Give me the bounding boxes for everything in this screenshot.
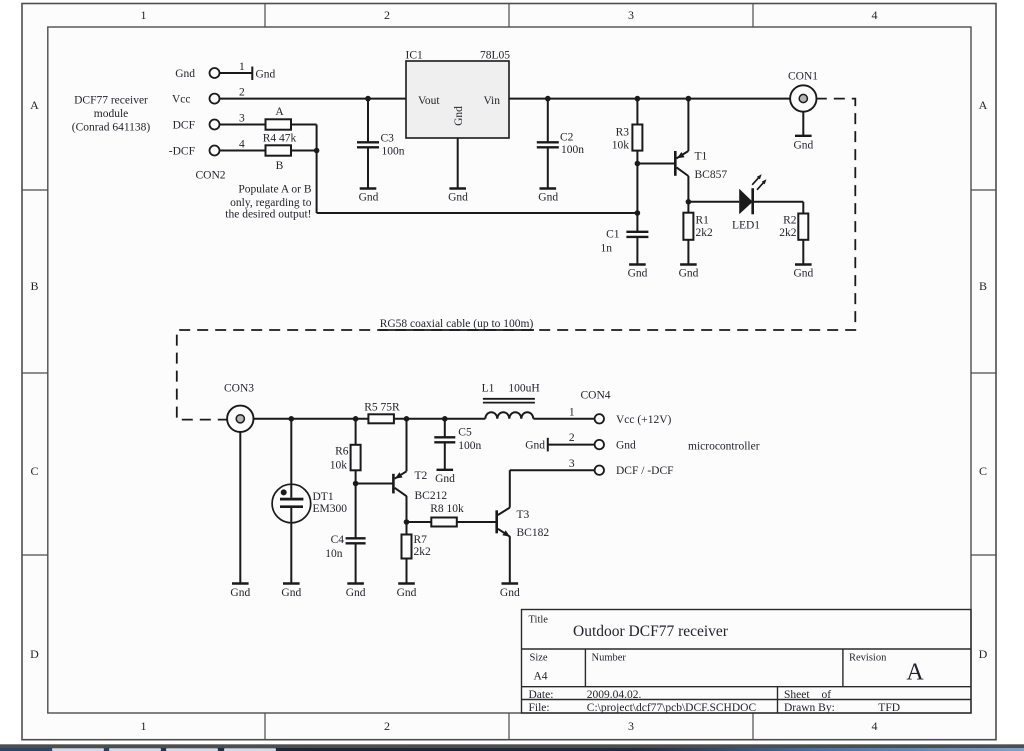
wire IC1 Vin to CON1 [509, 98, 790, 100]
resistor R5 [368, 414, 394, 423]
connector CON3 [227, 406, 253, 432]
node T1c/R1 [686, 199, 692, 205]
svg-text:Gnd: Gnd [281, 587, 301, 599]
svg-text:LED1: LED1 [732, 220, 760, 232]
wire C3 to ground [367, 147, 369, 189]
resistor R1 [683, 213, 693, 240]
svg-text:EM300: EM300 [313, 503, 348, 515]
svg-text:B: B [979, 279, 987, 293]
wire CON3 to ground [239, 432, 241, 584]
svg-text:1: 1 [141, 8, 147, 22]
wire C2 to ground [547, 147, 549, 189]
svg-text:CON1: CON1 [788, 71, 818, 83]
wire node to R8 [407, 521, 432, 523]
wire C5 branch [444, 419, 446, 437]
svg-text:3: 3 [239, 113, 245, 125]
connector CON4 pins [595, 414, 604, 475]
svg-text:of: of [822, 689, 832, 701]
wire T2 collector to R7/R8 node [406, 496, 408, 535]
title block frame [522, 610, 972, 714]
wire R1 to ground [687, 240, 689, 265]
svg-text:L1: L1 [482, 383, 495, 395]
svg-text:Gnd: Gnd [793, 140, 813, 152]
svg-text:Vcc (+12V): Vcc (+12V) [616, 414, 672, 426]
svg-text:A: A [275, 106, 284, 118]
svg-text:(Conrad 641138): (Conrad 641138) [72, 122, 151, 134]
svg-text:Size: Size [530, 652, 548, 663]
svg-text:C5: C5 [458, 427, 472, 439]
junction dots bottom [289, 416, 448, 525]
node T2c/R7/R8 [404, 519, 410, 525]
wire R2 to ground [802, 240, 804, 265]
svg-text:Outdoor DCF77 receiver: Outdoor DCF77 receiver [573, 623, 729, 640]
wire node to C1 rail [317, 212, 638, 214]
svg-text:R5 75R: R5 75R [364, 402, 400, 414]
svg-text:Gnd: Gnd [628, 268, 648, 280]
svg-text:R8 10k: R8 10k [430, 503, 464, 515]
wire T1 collector to LED [688, 201, 739, 203]
svg-text:R6: R6 [335, 446, 349, 458]
svg-text:T3: T3 [517, 509, 530, 521]
transistor T1 BC857 [675, 151, 688, 176]
svg-text:A4: A4 [534, 671, 548, 683]
resistor R8 [431, 518, 457, 527]
wire R6 bottom to C4 [355, 470, 357, 538]
svg-text:only, regarding to: only, regarding to [230, 197, 312, 209]
svg-text:3: 3 [628, 719, 634, 733]
wire CON2 pin4 to resistor B [220, 150, 266, 152]
svg-text:R1: R1 [696, 214, 710, 226]
LED1 symbol [739, 189, 753, 215]
svg-text:2: 2 [569, 432, 575, 444]
dashed coax outline [177, 99, 856, 420]
node rail/R3 [635, 96, 641, 102]
svg-text:Vcc: Vcc [172, 94, 191, 106]
svg-text:-DCF: -DCF [169, 146, 195, 158]
svg-text:Vin: Vin [483, 95, 500, 107]
wire CON1 to ground [802, 112, 804, 137]
svg-text:Gnd: Gnd [448, 192, 468, 204]
resistor R7 [402, 535, 412, 559]
capacitor C5 [434, 437, 455, 442]
svg-text:Drawn By:: Drawn By: [784, 702, 835, 714]
svg-text:10n: 10n [325, 548, 343, 560]
wire Gnd port to CON4 pin2 [548, 444, 595, 446]
svg-text:2k2: 2k2 [779, 227, 797, 239]
row ticks right [971, 189, 996, 191]
connector CON2 pins [210, 68, 220, 78]
svg-text:DCF / -DCF: DCF / -DCF [616, 465, 674, 477]
svg-text:Gnd: Gnd [616, 440, 636, 452]
svg-text:IC1: IC1 [406, 50, 424, 62]
wire C2 branch [547, 99, 549, 142]
svg-text:2009.04.02.: 2009.04.02. [587, 689, 642, 701]
resistor R4-B [266, 145, 292, 155]
svg-text:2k2: 2k2 [696, 227, 714, 239]
wire C5 to ground [444, 443, 446, 470]
svg-text:A: A [30, 98, 39, 112]
transistor T2 BC212 [393, 471, 406, 496]
svg-text:File:: File: [529, 702, 550, 714]
solid underline under RG58 text [379, 329, 534, 331]
wire T2 emitter vertical [406, 419, 408, 472]
svg-text:Title: Title [529, 615, 549, 626]
node C1 [635, 210, 641, 216]
svg-text:A: A [906, 660, 924, 686]
resistor R6 [351, 445, 361, 471]
wire C3 branch [367, 99, 369, 142]
svg-text:BC182: BC182 [517, 527, 550, 539]
svg-text:C:\project\dcf77\pcb\DCF.SCHDO: C:\project\dcf77\pcb\DCF.SCHDOC [587, 702, 757, 714]
svg-text:4: 4 [239, 139, 245, 151]
svg-text:Gnd: Gnd [679, 268, 699, 280]
svg-text:BC212: BC212 [415, 490, 448, 502]
junction dots top [314, 96, 691, 216]
svg-text:2: 2 [384, 8, 390, 22]
Gnd port bar pin2 [547, 438, 549, 452]
svg-text:B: B [30, 279, 38, 293]
wire R8 to T3 base [457, 521, 496, 523]
diode DT1 EM300 [272, 484, 311, 523]
transistor T3 BC182 [497, 508, 510, 537]
wire R6 top [355, 419, 357, 445]
wire IC1 gnd pin [457, 138, 459, 189]
row ticks left [22, 189, 48, 191]
resistor R4-A [266, 119, 292, 129]
capacitor C1 [626, 232, 648, 237]
svg-text:4: 4 [872, 8, 878, 22]
svg-text:BC857: BC857 [695, 169, 728, 181]
svg-text:Gnd: Gnd [346, 587, 366, 599]
node A/B join [314, 148, 320, 154]
wire CON2 pin1 to Gnd port [220, 72, 253, 74]
wire R3 bottom to C1 [636, 151, 638, 232]
svg-text:4: 4 [872, 719, 878, 733]
wire L1 to CON4 pin1 [533, 418, 594, 420]
wire T1 collector vertical [687, 176, 689, 202]
capacitor C2 [537, 142, 559, 147]
resistor R3 [632, 125, 642, 151]
node Vcc/C3 [365, 96, 371, 102]
svg-text:RG58 coaxial cable (up to 100m: RG58 coaxial cable (up to 100m) [380, 318, 534, 330]
svg-text:Gnd: Gnd [525, 440, 545, 452]
wire R7 to ground [406, 559, 408, 584]
wire LED cathode to R2 corner [753, 201, 804, 203]
connector CON1 [790, 85, 816, 111]
svg-text:module: module [94, 108, 129, 120]
wire T3 collector vertical [509, 470, 511, 507]
svg-text:the desired output!: the desired output! [225, 209, 311, 221]
svg-text:Gnd: Gnd [793, 268, 813, 280]
svg-text:R4 47k: R4 47k [263, 132, 297, 144]
svg-text:DT1: DT1 [313, 491, 334, 503]
resistor R2 [798, 214, 808, 240]
svg-text:B: B [276, 160, 284, 172]
wire resistor B to node [291, 150, 317, 152]
svg-text:Populate A or B: Populate A or B [238, 184, 311, 196]
svg-text:TFD: TFD [878, 702, 900, 714]
inductor L1 [483, 399, 535, 419]
node rail/T2e [404, 416, 410, 422]
wire resistor A to corner [291, 124, 317, 126]
node R3/base [635, 161, 641, 167]
wire DT1 lower to ground [290, 508, 292, 584]
svg-text:Gnd: Gnd [256, 69, 276, 81]
svg-text:Date:: Date: [529, 689, 554, 701]
wire Vcc rail CON2 pin2 to IC1 Vout [220, 98, 407, 100]
svg-text:100n: 100n [561, 144, 584, 156]
svg-text:C1: C1 [606, 228, 620, 240]
svg-text:100uH: 100uH [508, 383, 539, 395]
LED1 arrows [752, 177, 764, 190]
svg-text:R7: R7 [414, 534, 428, 546]
wire T1 base [637, 163, 674, 165]
wire C4 to ground [355, 544, 357, 584]
svg-text:D: D [30, 647, 39, 661]
svg-text:100n: 100n [458, 440, 481, 452]
svg-text:10k: 10k [330, 460, 348, 472]
svg-text:R2: R2 [783, 214, 797, 226]
svg-text:2: 2 [239, 87, 245, 99]
svg-text:microcontroller: microcontroller [688, 441, 760, 453]
svg-text:Gnd: Gnd [538, 192, 558, 204]
wire T2 base [356, 483, 394, 485]
svg-text:CON2: CON2 [195, 170, 225, 182]
ground symbols top [360, 188, 377, 190]
svg-text:C2: C2 [560, 132, 574, 144]
column ticks bottom [264, 713, 266, 740]
svg-text:C4: C4 [331, 534, 345, 546]
svg-text:1: 1 [569, 406, 575, 418]
svg-text:100n: 100n [382, 146, 405, 158]
svg-text:Sheet: Sheet [784, 689, 810, 701]
svg-text:Gnd: Gnd [435, 473, 455, 485]
svg-text:Gnd: Gnd [359, 192, 379, 204]
svg-text:Gnd: Gnd [453, 106, 465, 126]
svg-text:2k2: 2k2 [414, 546, 432, 558]
wire DT1 branch upper [290, 419, 292, 498]
wire CON3 to R5 rail [254, 418, 369, 420]
svg-text:C: C [979, 464, 987, 478]
svg-text:2: 2 [384, 719, 390, 733]
svg-text:Revision: Revision [849, 652, 887, 663]
wire R3 top [636, 99, 638, 125]
capacitor C3 [357, 142, 379, 147]
wire C1 to ground [636, 237, 638, 264]
node rail/T1e [686, 96, 692, 102]
svg-text:Gnd: Gnd [230, 587, 250, 599]
svg-text:R3: R3 [616, 127, 630, 139]
svg-text:78L05: 78L05 [480, 50, 510, 62]
wire CON4 pin3 to corner [510, 469, 595, 471]
wire T3 emitter to ground [509, 536, 511, 583]
svg-text:CON3: CON3 [224, 383, 254, 395]
svg-text:3: 3 [628, 8, 634, 22]
wire CON2 pin3 to resistor A [220, 124, 266, 126]
svg-text:Gnd: Gnd [175, 68, 195, 80]
Gnd port bar pin1 [251, 67, 253, 81]
svg-text:D: D [979, 647, 988, 661]
wire R1 top [687, 202, 689, 213]
svg-text:Gnd: Gnd [500, 587, 520, 599]
node rail/R6 [353, 416, 359, 422]
svg-text:3: 3 [569, 458, 575, 470]
svg-text:T2: T2 [415, 470, 428, 482]
node Vin/C2 [545, 96, 551, 102]
wire T1 emitter vertical [687, 99, 689, 151]
svg-text:C3: C3 [381, 133, 395, 145]
wire A/B node down [316, 125, 318, 214]
svg-text:1: 1 [141, 719, 147, 733]
svg-text:1n: 1n [601, 243, 613, 255]
svg-text:C: C [30, 464, 38, 478]
svg-text:Gnd: Gnd [397, 587, 417, 599]
svg-text:Number: Number [592, 652, 627, 663]
svg-text:1: 1 [239, 61, 245, 73]
IC1 regulator box [406, 61, 509, 138]
ground symbols bottom [232, 583, 249, 585]
wire R5 to L1 [394, 418, 485, 420]
svg-text:T1: T1 [695, 151, 708, 163]
capacitor C4 [346, 538, 366, 543]
node R6/T2 base [353, 481, 359, 487]
svg-text:10k: 10k [612, 140, 630, 152]
wire R2 top [802, 202, 804, 214]
svg-text:A: A [979, 98, 988, 112]
svg-text:Vout: Vout [418, 95, 440, 107]
svg-text:DCF: DCF [173, 120, 195, 132]
svg-text:DCF77 receiver: DCF77 receiver [74, 95, 148, 107]
node rail/C5 [442, 416, 448, 422]
svg-text:CON4: CON4 [580, 390, 610, 402]
node rail/DT1 [289, 416, 295, 422]
